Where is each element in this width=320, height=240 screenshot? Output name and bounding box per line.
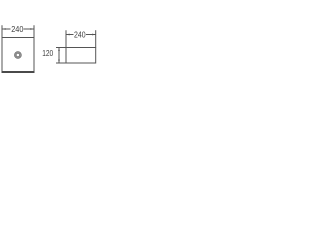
svg-text:120: 120 <box>42 49 53 58</box>
left view: basin square outline <box>2 38 34 72</box>
left view: extension line right <box>33 25 35 37</box>
right view: 120 arrow down <box>58 60 60 63</box>
right view: arrow left <box>66 34 70 36</box>
svg-text:240: 240 <box>74 31 86 40</box>
right view: arrow right <box>92 34 96 36</box>
right view: extension line right <box>95 30 97 47</box>
left view: dimension line 240 left segment <box>2 28 11 30</box>
left view: dimension line 240 right segment <box>24 28 35 30</box>
right view: extension line left <box>65 30 67 47</box>
left view: drain ring fill <box>15 52 20 57</box>
left view: drain inner circle <box>16 53 20 57</box>
right view: dimension line 240 left segment <box>66 34 74 36</box>
svg-text:240: 240 <box>11 25 24 34</box>
right view: 120 arrow up <box>58 48 60 51</box>
right view: 120 extension line bottom <box>56 62 66 64</box>
left view: drain outer circle <box>15 52 22 59</box>
left view: arrow right <box>30 28 34 30</box>
right view: 120 extension line top <box>56 47 66 49</box>
left view: thick bottom edge <box>2 71 35 73</box>
right view: basin rectangle outline <box>66 48 96 64</box>
right view: dimension line 240 right segment <box>86 34 96 36</box>
left view: extension line left <box>1 25 3 37</box>
left view: arrow left <box>2 28 6 30</box>
right view: 120 dimension vertical line <box>58 48 60 64</box>
